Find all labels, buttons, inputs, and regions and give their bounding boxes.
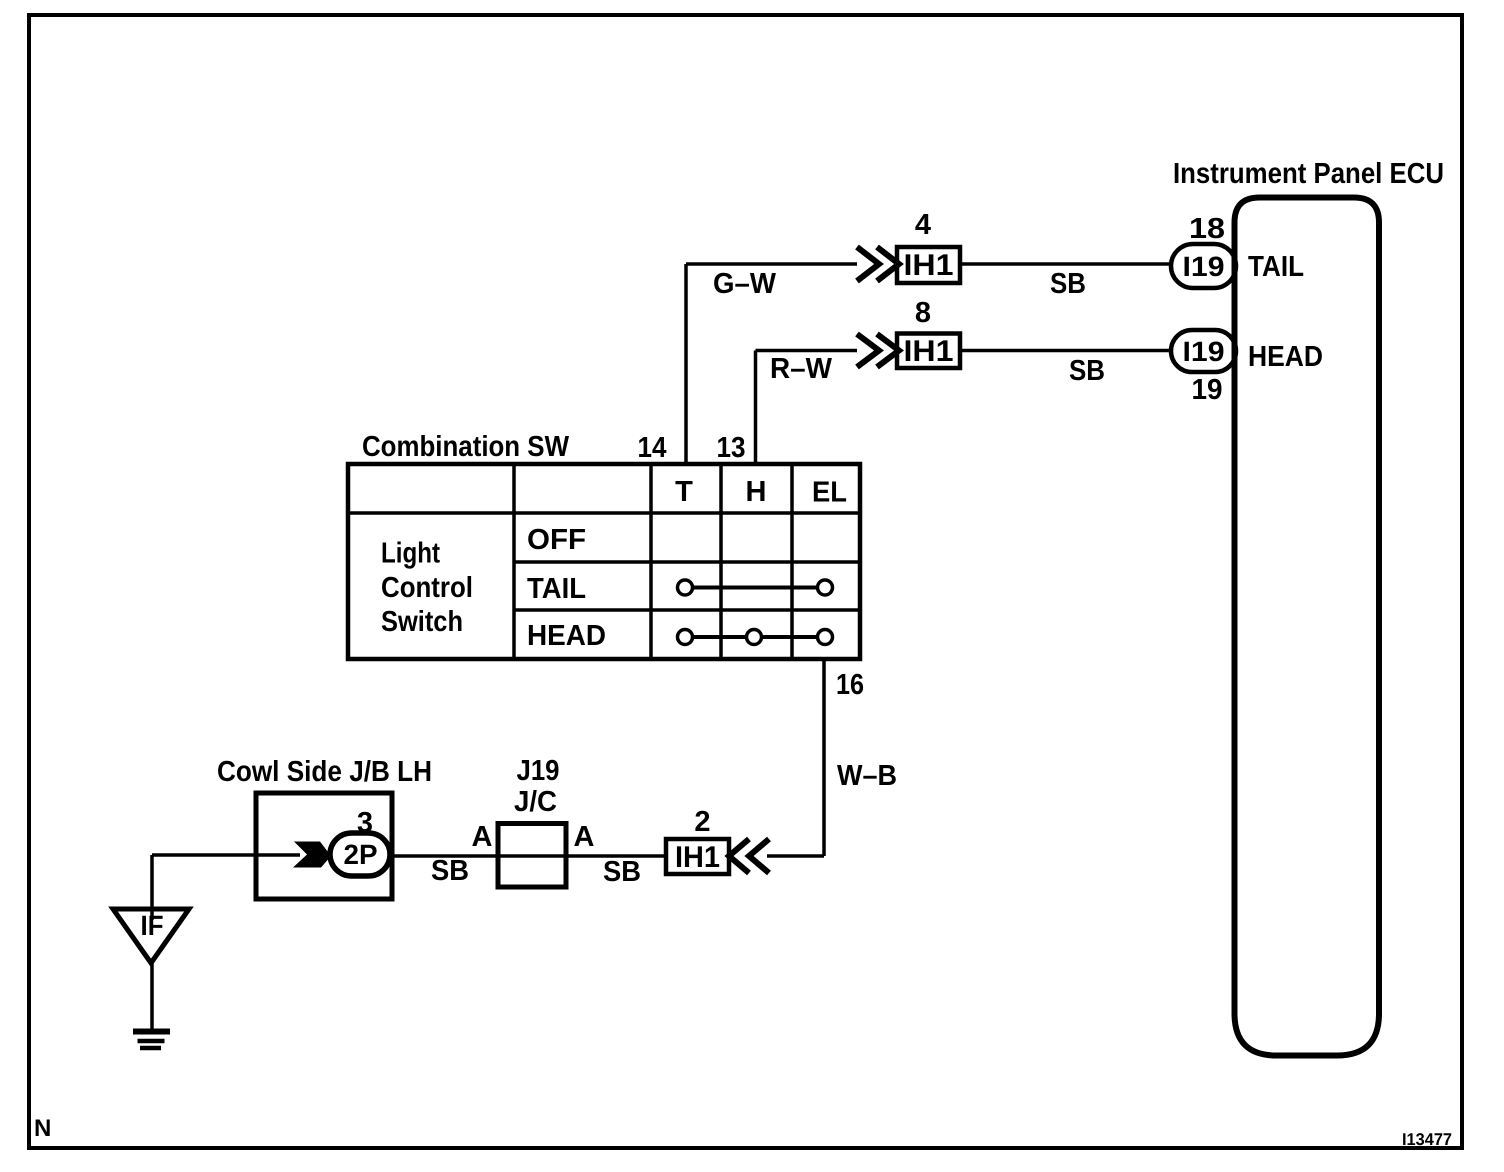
svg-text:A: A	[472, 821, 493, 853]
svg-text:2P: 2P	[344, 839, 378, 870]
svg-text:16: 16	[836, 669, 864, 701]
svg-text:HEAD: HEAD	[527, 620, 606, 652]
svg-text:4: 4	[915, 209, 931, 241]
svg-text:I13477: I13477	[1402, 1130, 1452, 1149]
svg-text:I19: I19	[1183, 251, 1225, 282]
svg-text:Instrument Panel ECU: Instrument Panel ECU	[1173, 158, 1444, 190]
svg-text:IH1: IH1	[904, 249, 954, 282]
svg-text:8: 8	[915, 297, 931, 329]
svg-text:TAIL: TAIL	[527, 573, 586, 605]
svg-text:TAIL: TAIL	[1248, 251, 1304, 283]
svg-text:N: N	[34, 1115, 51, 1142]
svg-text:18: 18	[1189, 213, 1225, 245]
svg-text:19: 19	[1192, 374, 1223, 406]
svg-text:Control: Control	[381, 572, 473, 604]
svg-text:R–W: R–W	[770, 353, 833, 385]
svg-text:IH1: IH1	[904, 335, 954, 368]
svg-text:HEAD: HEAD	[1248, 341, 1323, 373]
svg-text:Cowl Side J/B LH: Cowl Side J/B LH	[217, 756, 432, 788]
svg-text:J19: J19	[517, 755, 560, 787]
svg-text:W–B: W–B	[837, 760, 897, 792]
svg-text:14: 14	[638, 432, 667, 464]
svg-text:2: 2	[694, 806, 710, 838]
svg-text:Light: Light	[381, 538, 440, 570]
svg-text:IF: IF	[141, 910, 164, 941]
svg-text:Combination SW: Combination SW	[362, 431, 570, 463]
svg-text:A: A	[574, 821, 595, 853]
svg-text:G–W: G–W	[713, 268, 777, 300]
svg-text:SB: SB	[1050, 268, 1086, 300]
svg-text:J/C: J/C	[514, 786, 557, 818]
svg-text:EL: EL	[812, 477, 847, 509]
svg-text:SB: SB	[431, 855, 469, 887]
svg-text:SB: SB	[1069, 355, 1105, 387]
svg-text:I19: I19	[1183, 336, 1225, 367]
svg-text:OFF: OFF	[527, 524, 586, 556]
svg-text:Switch: Switch	[381, 606, 463, 638]
svg-text:SB: SB	[603, 856, 641, 888]
svg-text:H: H	[746, 476, 767, 508]
svg-text:T: T	[675, 476, 693, 508]
svg-text:IH1: IH1	[675, 841, 720, 874]
svg-text:13: 13	[717, 432, 746, 464]
svg-text:3: 3	[357, 807, 373, 839]
